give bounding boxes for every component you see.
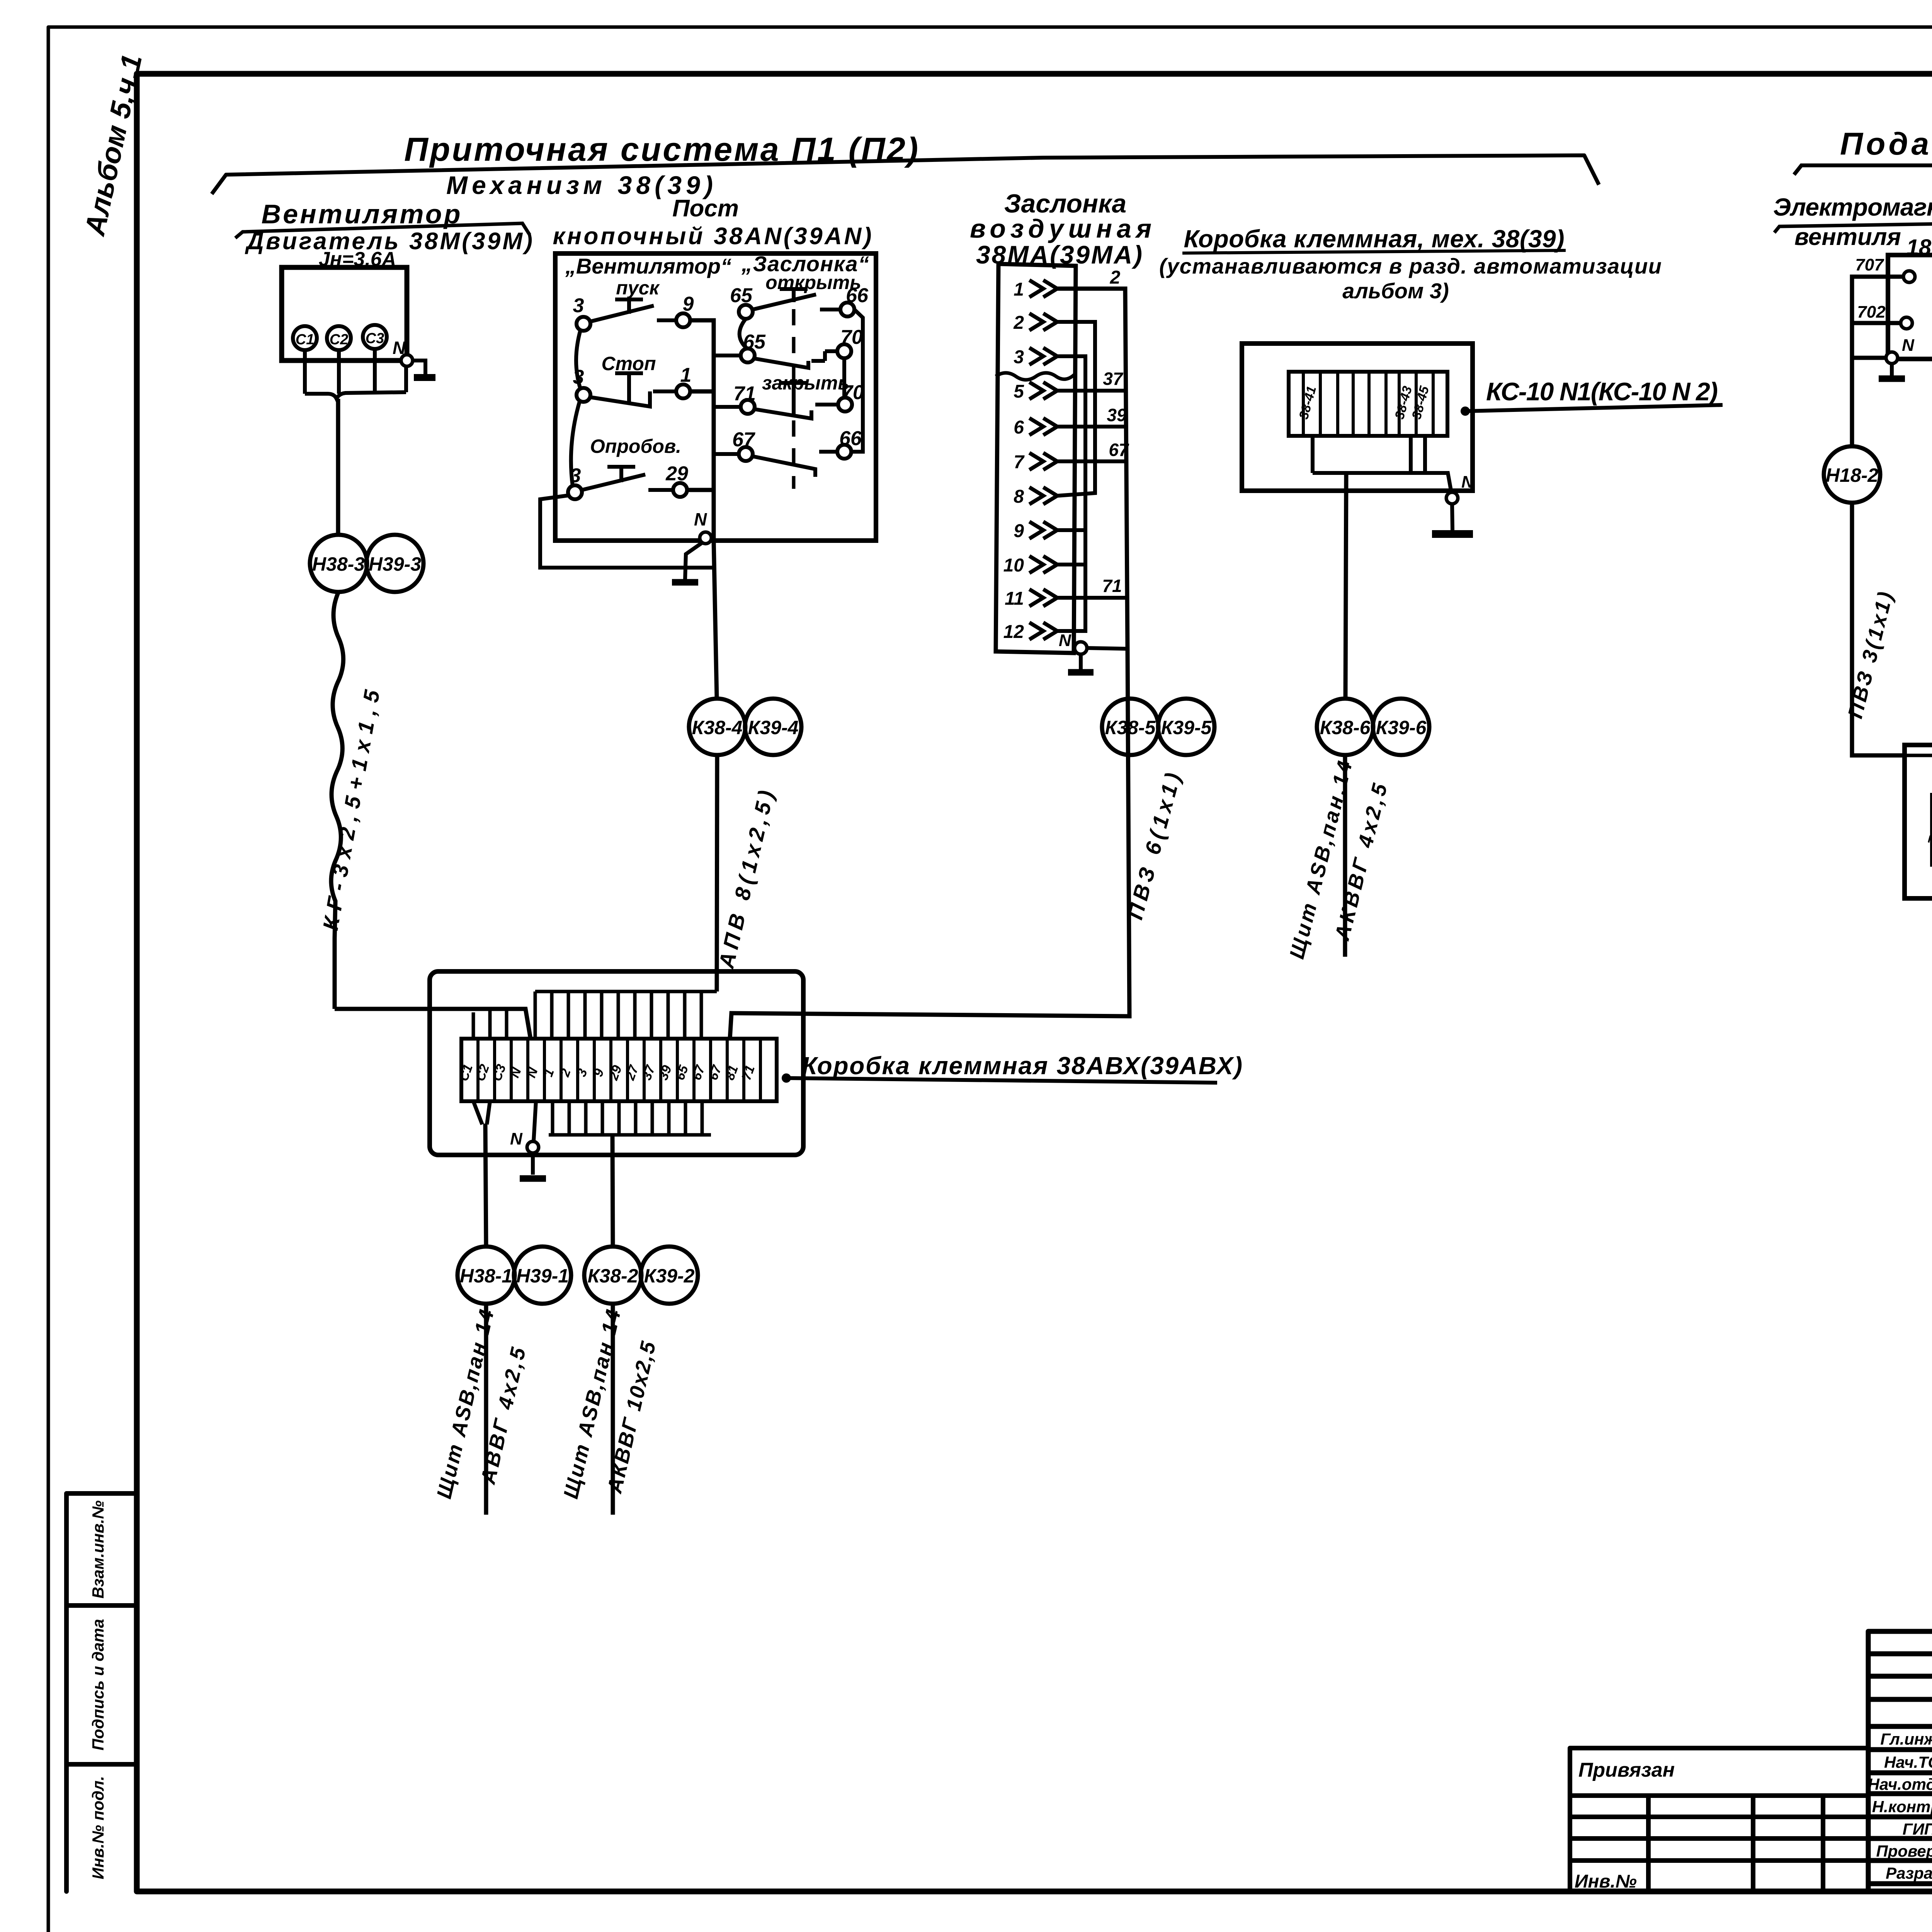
label pusk [616,277,660,299]
wire row7 out 67 [1057,440,1129,461]
18ABX nested wiring [1905,755,1932,795]
motor terminal C2 [327,326,351,350]
18ABX terminal labels [1924,820,1932,847]
wire zaslonka left taps [714,319,747,454]
KS-10 internal wires [1313,436,1451,492]
svg-text:8: 8 [1014,486,1024,507]
cable circle K38-6 [1317,699,1373,755]
svg-text:К39-6: К39-6 [1376,717,1427,738]
wire motor N to ground [413,361,425,375]
cable circle K38-4 [689,699,745,755]
svg-text:N: N [1461,473,1474,492]
wire motor cable down [336,399,340,535]
fan label [262,199,461,229]
section header P1 P2 [404,131,918,168]
cable label AKVVG 4x2,5 [1330,781,1392,943]
cable circle H38-1 [457,1247,515,1304]
svg-text:Электромагнит: Электромагнит [1773,193,1932,221]
pin labels 65 66 [730,284,869,307]
cable circle K39-2 [641,1247,698,1304]
wire flexible cable wavy [331,592,344,1009]
ground 38ABX [520,1153,546,1179]
wire H18-2 to 18ABX [1852,503,1905,755]
svg-text:3: 3 [1014,347,1024,367]
wire trunk to K38-5 and box [730,649,1129,1039]
38ABX lower stubs center [549,1101,711,1135]
wire row5 out 37 [1057,369,1128,391]
wire right bus to K38-4 [687,320,714,541]
cable circle K38-5 [1102,699,1158,755]
cable circle K39-4 [745,699,801,755]
cable label AVVG 4x2,5 [476,1345,530,1487]
svg-text:Инв.№: Инв.№ [1575,1871,1637,1892]
svg-text:71: 71 [1102,576,1122,596]
electromagnit underline bracket [1774,223,1932,233]
svg-text:702: 702 [1857,303,1886,321]
svg-text:6: 6 [1014,417,1024,438]
wire left bus 3 [571,330,580,486]
38ABX N terminal [510,1129,539,1153]
cable circle H39-3 [366,535,423,592]
38ABX leader and label [782,1052,1242,1083]
cable label PVZ 3(1x1) left [1844,590,1897,721]
38ABX lower stubs left merge [473,1101,490,1124]
cable circle H39-1 [514,1247,571,1304]
contact 67-66 [739,445,851,477]
svg-text:Инв.№ подл.: Инв.№ подл. [89,1776,107,1879]
svg-text:К38-4: К38-4 [692,717,743,738]
section bracket P1 P2 [212,155,1599,194]
svg-text:Разраб: Разраб [1886,1864,1932,1882]
svg-text:Гл.инж.: Гл.инж. [1880,1730,1932,1748]
motor terminal C3 [363,325,387,349]
wire below H38-1 [484,1304,488,1515]
svg-text:Пост: Пост [672,195,739,222]
pin labels 71 70 [733,381,864,405]
svg-text:воздушная: воздушная [970,214,1151,243]
wire row11 out 71 [1057,576,1128,598]
fan underline bracket [235,223,530,238]
svg-text:Н.контр: Н.контр [1872,1798,1932,1816]
section header Podacha vozdukha [1840,126,1932,162]
svg-text:Н38-1: Н38-1 [460,1265,512,1287]
svg-text:12: 12 [1003,622,1024,642]
label Electromagnit [1773,193,1932,221]
svg-text:Н39-3: Н39-3 [369,553,421,575]
svg-text:„Вентилятор“: „Вентилятор“ [565,254,731,278]
button stop contact [577,373,690,406]
svg-text:С3: С3 [366,330,384,347]
push button post 38AN box [555,253,876,541]
left column table [66,1493,137,1891]
KS-10 N terminal [1446,473,1474,504]
connector row numbers [1003,279,1025,642]
svg-text:65: 65 [743,331,766,353]
cable label APV 8(1x2,5) [714,788,779,971]
button stop pin labels [573,364,692,388]
18YA terminal 707 [1855,255,1915,282]
pin labels 67 66 [732,427,862,451]
button pusk pin labels [573,293,694,317]
cable label Shchit ASB pan14 left [432,1308,498,1501]
svg-text:5: 5 [1014,381,1024,402]
wire zaslonka right bus [844,310,863,452]
ground motor [414,374,435,381]
svg-text:Привязан: Привязан [1578,1759,1675,1781]
svg-text:29: 29 [665,463,688,485]
signature table texts [1868,1730,1932,1882]
wire row3 riser [1057,356,1085,631]
svg-text:9: 9 [1014,521,1024,541]
cable circle H18-2 [1824,446,1880,503]
connector break wavy [996,373,1076,380]
18YA N terminal [1886,336,1915,364]
svg-text:71: 71 [733,383,756,405]
cable label PVZ 6(1x1) [1122,770,1185,922]
ground KS-10 [1432,504,1473,534]
mechanical link dashed [792,309,796,489]
cable circle H38-3 [310,535,367,592]
motor M38 box [282,267,407,361]
terminal box KS-10 header [1159,225,1662,303]
wire KS-10 to K38-6 [1345,473,1346,699]
svg-text:70: 70 [840,326,863,349]
svg-text:Коробка клеммная 38АВХ(39АВХ): Коробка клеммная 38АВХ(39АВХ) [802,1052,1242,1080]
38ABX left stubs [473,1010,507,1039]
svg-text:Нач.ТО: Нач.ТО [1884,1753,1932,1771]
svg-text:10: 10 [1003,555,1024,576]
wire 18YA left riser [1852,277,1903,446]
button pusk contact [577,299,690,331]
svg-text:Опробов.: Опробов. [590,435,681,457]
cable circle K39-6 [1373,699,1429,755]
ground 18YA [1879,364,1905,379]
svg-text:1: 1 [680,364,692,386]
left table vertical texts [89,1500,107,1879]
cable label Shchit ASB pan14 [1285,759,1357,961]
svg-text:66: 66 [846,284,869,307]
cable circle K38-2 [584,1247,641,1304]
contact 65-70 [741,344,851,368]
svg-text:2: 2 [1110,267,1121,288]
wire row1 to trunk [1057,289,1128,649]
label Stop [602,353,656,374]
button oprobov contact [568,467,687,499]
svg-text:Стоп: Стоп [602,353,656,374]
svg-text:65: 65 [730,284,753,307]
wire 38ABX to H38-1 [485,1124,486,1247]
svg-text:Коробка клеммная, мех. 38(39): Коробка клеммная, мех. 38(39) [1184,225,1565,253]
label Oprobov [590,435,681,457]
svg-text:67: 67 [1109,440,1129,460]
air damper connector 38MA box [996,264,1076,653]
connector N terminal [1059,631,1087,654]
svg-text:N: N [1902,336,1915,355]
label 18YA [1906,235,1932,260]
title block outline [1868,1631,1932,1891]
title block texts [1575,1647,1932,1931]
svg-text:N: N [1059,631,1071,650]
svg-text:67: 67 [732,429,755,451]
cable label Shchit ASB pan14 right [559,1308,625,1501]
38ABX terminal strip [461,1039,777,1101]
svg-text:К39-2: К39-2 [644,1265,695,1287]
KS-10 terminal labels [1296,384,1432,421]
KS-10 leader and label [1461,377,1723,416]
cable circle K39-5 [1158,699,1214,755]
svg-text:707: 707 [1855,255,1884,274]
terminal box 18ABX [1905,745,1932,898]
svg-text:альбом 3): альбом 3) [1342,279,1449,303]
button oprobov pin labels [570,463,688,487]
svg-text:Н39-1: Н39-1 [516,1265,569,1287]
svg-text:К39-4: К39-4 [748,717,799,738]
motor terminal C1 [293,326,317,350]
svg-text:К38-6: К38-6 [1320,717,1371,738]
38ABX N stub [534,1101,536,1141]
svg-text:1: 1 [1014,279,1024,300]
contact 71-70 [741,383,852,418]
svg-text:Провер.: Провер. [1876,1842,1932,1860]
post N terminal [694,509,711,544]
terminal box KS-10 [1242,344,1473,491]
wire number 2 [1110,267,1121,288]
wire row2 loop [1057,322,1095,496]
wire K38-4 drop [714,541,717,698]
wire below K38-2 [611,1304,615,1515]
electromagnet valve 18YA box [1888,255,1932,359]
svg-text:39: 39 [1107,405,1127,425]
connector rows [1029,280,1057,639]
svg-text:N: N [510,1129,523,1148]
svg-text:вентиля: вентиля [1794,224,1901,250]
18YA terminal 702 [1857,303,1912,329]
cable label AKVVG 10x2,5 [603,1339,660,1496]
svg-text:37: 37 [1103,369,1124,389]
svg-text:2: 2 [1013,313,1024,333]
current label Jn=3,6A [319,248,396,270]
subheader Mechanism 38(39) [446,171,713,199]
svg-text:С2: С2 [330,332,349,348]
album label [78,51,148,239]
ground post 38AN [685,543,702,580]
svg-text:9: 9 [683,293,694,315]
title block left attachment box [1570,1748,1868,1891]
motor N terminal [401,355,413,366]
pin labels 65 70 [743,326,863,353]
svg-text:Взам.инв.№: Взам.инв.№ [89,1500,107,1599]
svg-text:С1: С1 [296,332,315,348]
cable label KG-3x2,5+1x1,5 [318,688,384,932]
label Ventilator [565,254,731,278]
svg-text:Н38-3: Н38-3 [312,553,365,575]
svg-text:(устанавливаются в разд. автом: (устанавливаются в разд. автоматизации [1159,254,1662,278]
svg-text:N: N [694,509,707,529]
svg-text:7: 7 [1014,452,1025,473]
motor label 38M(39M) [245,228,532,255]
push button post 38AN label [553,195,872,250]
svg-text:Нач.отд.: Нач.отд. [1868,1775,1932,1793]
label zakryt [762,372,849,394]
svg-text:К39-5: К39-5 [1161,717,1212,738]
ground connector 38MA [1068,654,1094,672]
wire N to trunk [1087,648,1128,649]
air damper label [970,189,1151,269]
svg-text:К38-5: К38-5 [1105,717,1156,738]
label Zaslonka [741,252,869,276]
svg-text:11: 11 [1005,588,1024,609]
wire to terminal box 38ABX [335,1009,531,1039]
wire motor leads [305,349,406,399]
svg-text:Н18-2: Н18-2 [1826,464,1878,486]
38ABX terminal labels [456,1062,758,1083]
svg-text:66: 66 [839,427,862,450]
wire row6 out 39 [1057,405,1128,427]
svg-text:Подпись и дата: Подпись и дата [89,1619,107,1750]
svg-text:К38-2: К38-2 [588,1265,638,1287]
terminal box 38ABX [430,971,803,1155]
wire K38-6 down [1343,755,1347,957]
wire 38ABX to K38-2 [612,1135,613,1247]
svg-text:ГИП: ГИП [1903,1820,1932,1838]
motor terminal N label [393,338,406,358]
label otkryt [765,272,861,293]
wire APV drop to 38ABX [717,755,717,992]
section bracket right [1794,165,1932,183]
wire U below post [540,495,712,568]
label ventilya [1794,224,1901,250]
button open zaslonka contact 65-66 [739,289,854,319]
svg-text:3: 3 [573,294,584,317]
KS-10 terminal strip [1289,372,1447,436]
svg-text:пуск: пуск [616,277,660,299]
38ABX upper stub bundle [535,992,717,1039]
svg-text:КС-10 N1(КС-10 N 2): КС-10 N1(КС-10 N 2) [1486,377,1718,406]
